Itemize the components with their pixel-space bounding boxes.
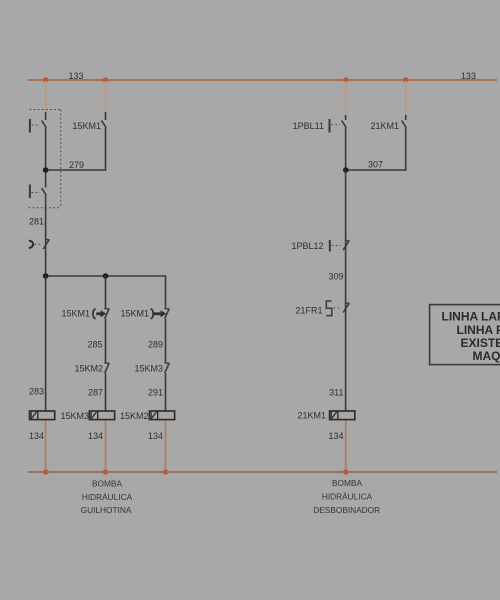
node label 279 bbox=[69, 160, 84, 170]
note text line 3 bbox=[461, 336, 500, 350]
svg-text:291: 291 bbox=[148, 388, 163, 398]
svg-text:21KM1: 21KM1 bbox=[370, 121, 399, 131]
node label 134 col2 bbox=[88, 431, 103, 441]
svg-text:BOMBA: BOMBA bbox=[92, 479, 122, 489]
node label 289 bbox=[148, 340, 163, 350]
interlock arrow right (15KM1 NO contact col3) bbox=[151, 308, 170, 318]
svg-text:134: 134 bbox=[328, 431, 343, 441]
junction dot bus col1 bbox=[43, 273, 49, 279]
wire orange stub col2 top bbox=[105, 81, 107, 112]
emergency stop mushroom head bbox=[29, 241, 33, 248]
wire col4 down to 1PBL12 bbox=[345, 170, 347, 411]
note box linha larga bbox=[430, 305, 500, 365]
svg-text:BOMBA: BOMBA bbox=[332, 478, 362, 488]
wire col4 contact to node 307 bbox=[345, 128, 347, 171]
svg-text:134: 134 bbox=[148, 431, 163, 441]
label 21FR1 bbox=[295, 306, 322, 316]
pushbutton contact 1PBL12 (NC) bbox=[330, 240, 350, 252]
svg-text:15KM2: 15KM2 bbox=[74, 364, 103, 374]
wire orange stub col5 top bbox=[405, 81, 407, 115]
svg-text:21KM1: 21KM1 bbox=[297, 411, 326, 421]
label 15KM3 coil bbox=[60, 411, 89, 421]
dashed mechanical-link box around pushbutton contacts bbox=[29, 110, 61, 208]
wire col5 contact down bbox=[405, 128, 407, 171]
node label 133 right bbox=[461, 71, 476, 81]
coil 21KM1 (col4) bbox=[330, 411, 355, 420]
pushbutton contact S1a (NO) bbox=[30, 112, 46, 133]
label 15KM1 top bbox=[72, 121, 101, 131]
note text line 2 bbox=[457, 323, 500, 337]
wire col1 to coil bbox=[45, 276, 47, 411]
svg-text:285: 285 bbox=[87, 340, 102, 350]
svg-text:289: 289 bbox=[148, 340, 163, 350]
label 15KM3 bbox=[134, 364, 163, 374]
junction dot bottom rail col2 bbox=[103, 469, 108, 474]
bus horizontal at node 283 bbox=[46, 275, 166, 277]
wire col2 between row A and row B bbox=[105, 319, 107, 363]
wire orange stub col2 bottom bbox=[105, 421, 107, 472]
wire col1 below contact S1b bbox=[45, 195, 47, 276]
bus 307 horizontal bbox=[346, 169, 406, 171]
junction dot node 279 bbox=[43, 167, 49, 173]
svg-text:21FR1: 21FR1 bbox=[295, 306, 322, 316]
wire orange stub col1 top bbox=[45, 81, 47, 112]
label 15KM2 coil bbox=[120, 411, 149, 421]
pushbutton contact S1b (NO) bbox=[30, 185, 46, 199]
caption bomba hidraulica guilhotina bbox=[81, 479, 133, 516]
wire orange stub col4 bottom bbox=[345, 421, 347, 472]
svg-text:15KM2: 15KM2 bbox=[120, 411, 149, 421]
label 15KM1 row A left bbox=[61, 309, 90, 319]
contact 15KM1 (NO, col2) bbox=[102, 112, 107, 128]
pushbutton contact 1PBL11 (NO) bbox=[330, 115, 347, 133]
interlock arrow left (15KM1 NO contact col2) bbox=[93, 308, 110, 318]
junction dot bottom rail col4 bbox=[343, 469, 348, 474]
node label 283 bbox=[29, 387, 44, 397]
coil 15KM3 (col2) bbox=[89, 411, 114, 420]
svg-text:LINHA PA: LINHA PA bbox=[457, 323, 500, 337]
junction dot node 307 bbox=[343, 167, 349, 173]
junction dot top rail col4 bbox=[343, 77, 348, 82]
svg-text:15KM1: 15KM1 bbox=[72, 121, 101, 131]
svg-text:HIDRÁULICA: HIDRÁULICA bbox=[322, 492, 373, 502]
label 15KM2 bbox=[74, 364, 103, 374]
svg-text:287: 287 bbox=[88, 388, 103, 398]
node label 134 col4 bbox=[328, 431, 343, 441]
contact 15KM3 (NO, col3 row B) bbox=[164, 363, 169, 373]
svg-text:MAQU: MAQU bbox=[473, 349, 500, 363]
svg-text:15KM3: 15KM3 bbox=[134, 364, 163, 374]
node label 309 bbox=[328, 272, 343, 282]
label 21KM1 top bbox=[370, 121, 399, 131]
emergency stop NC contact mark bbox=[43, 239, 49, 249]
contact 15KM2 (NO, col2 row B) bbox=[104, 363, 109, 373]
wire orange stub col3 bottom bbox=[165, 421, 167, 472]
wire col1 between contacts bbox=[45, 128, 47, 188]
wire col3 row B to coil bbox=[165, 373, 167, 411]
emergency stop dashed link bbox=[35, 243, 43, 245]
label 21KM1 coil bbox=[297, 411, 326, 421]
svg-text:311: 311 bbox=[329, 388, 343, 398]
svg-text:283: 283 bbox=[29, 387, 44, 397]
svg-text:LINHA LARGA: LINHA LARGA bbox=[442, 310, 500, 324]
svg-text:307: 307 bbox=[368, 160, 383, 170]
node label 134 col3 bbox=[148, 431, 163, 441]
junction dot bottom rail col3 bbox=[163, 469, 168, 474]
wire orange stub col1 bottom bbox=[45, 421, 47, 472]
note text line 4 bbox=[473, 349, 500, 363]
wire col2 bus to contact row A bbox=[105, 276, 107, 308]
label 1PBL12 bbox=[291, 241, 323, 251]
thermal relay contact 21FR1 (NC) bbox=[326, 301, 349, 316]
contact 21KM1 (NO, col5) bbox=[402, 115, 407, 128]
svg-text:133: 133 bbox=[68, 71, 83, 81]
wire col2 down to 279 bus bbox=[105, 128, 107, 171]
node label 285 bbox=[87, 340, 102, 350]
svg-text:309: 309 bbox=[328, 272, 343, 282]
svg-text:DESBOBINADOR: DESBOBINADOR bbox=[313, 505, 380, 515]
bus 279 horizontal bbox=[46, 169, 106, 171]
wire col2 row B to coil bbox=[105, 373, 107, 411]
svg-text:1PBL11: 1PBL11 bbox=[293, 121, 324, 131]
svg-text:GUILHOTINA: GUILHOTINA bbox=[81, 505, 132, 515]
svg-text:15KM1: 15KM1 bbox=[61, 309, 90, 319]
junction dot top rail col1 bbox=[43, 77, 48, 82]
junction dot bus col2 bbox=[103, 273, 109, 279]
svg-text:15KM3: 15KM3 bbox=[60, 411, 89, 421]
svg-text:15KM1: 15KM1 bbox=[120, 309, 149, 319]
node label 311 bbox=[329, 388, 343, 398]
label 15KM1 row A right bbox=[120, 309, 149, 319]
wire col3 between row A and row B bbox=[165, 319, 167, 363]
junction dot top rail col2 bbox=[103, 77, 108, 82]
svg-text:133: 133 bbox=[461, 71, 476, 81]
node label 287 bbox=[88, 388, 103, 398]
label 1PBL11 bbox=[293, 121, 324, 131]
caption bomba hidraulica desbobinador bbox=[313, 478, 380, 515]
wire orange stub col4 top bbox=[345, 81, 347, 115]
svg-text:134: 134 bbox=[29, 431, 44, 441]
top power rail 133 bbox=[28, 79, 497, 81]
bottom power rail 134 bbox=[28, 471, 497, 473]
node label 133 left bbox=[68, 71, 83, 81]
svg-text:134: 134 bbox=[88, 431, 103, 441]
junction dot bottom rail col1 bbox=[43, 469, 48, 474]
note text line 1 bbox=[442, 310, 500, 324]
node label 291 bbox=[148, 388, 163, 398]
node label 281 bbox=[29, 217, 44, 227]
coil 15KM1 (col1) bbox=[30, 411, 55, 420]
svg-text:EXISTEN: EXISTEN bbox=[461, 336, 500, 350]
coil 15KM2 (col3) bbox=[149, 411, 174, 420]
junction dot top rail col5 bbox=[403, 77, 408, 82]
node label 307 bbox=[368, 160, 383, 170]
svg-text:1PBL12: 1PBL12 bbox=[291, 241, 323, 251]
svg-text:279: 279 bbox=[69, 160, 84, 170]
node label 134 col1 bbox=[29, 431, 44, 441]
svg-text:281: 281 bbox=[29, 217, 44, 227]
svg-text:HIDRÁULICA: HIDRÁULICA bbox=[82, 492, 133, 502]
wire col3 bus corner down bbox=[165, 275, 167, 307]
